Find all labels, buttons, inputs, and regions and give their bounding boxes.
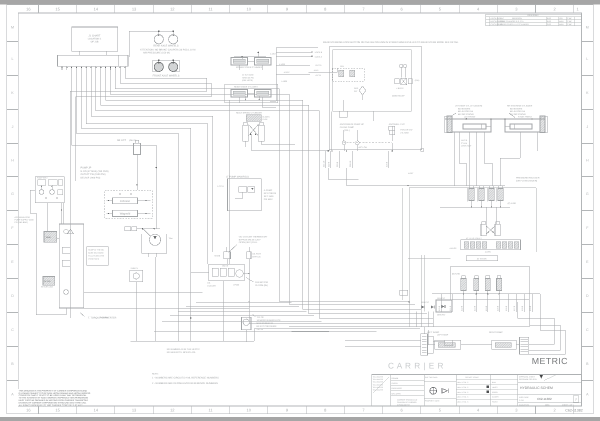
svg-text:BYPASS VALVE 120 F: BYPASS VALVE 120 F [239, 238, 262, 241]
svg-text:Tfan: Tfan [169, 237, 173, 240]
svg-text:BASE OIL 15W40: BASE OIL 15W40 [88, 252, 103, 255]
svg-text:C A R R | E R: C A R R | E R [388, 361, 444, 370]
svg-text:LIM ±.X TOL .5: LIM ±.X TOL .5 [457, 391, 468, 394]
dashed relay actuation line [343, 142, 392, 144]
svg-text:NO MAN AT/TIL NPN BY AGL: NO MAN AT/TIL NPN BY AGL [167, 351, 197, 354]
svg-text:J: J [586, 125, 588, 129]
svg-text:OIL FLTR: OIL FLTR [252, 253, 261, 256]
svg-text:R HAY FRONT: R HAY FRONT [518, 116, 533, 119]
small cylinder pair with X cross [481, 224, 486, 235]
small valve GA20 [224, 252, 231, 259]
svg-text:D 750: D 750 [519, 399, 524, 402]
svg-text:REAR STEERING LOCK BUTTON ON T: REAR STEERING LOCK BUTTON ON THE RH COLU… [323, 41, 459, 44]
right cylinder [258, 125, 264, 141]
svg-text:LIM ±.X TOL .5: LIM ±.X TOL .5 [457, 401, 468, 404]
svg-text:308-18: 308-18 [349, 160, 352, 167]
cylinder drop wires [453, 132, 455, 186]
svg-text:FAN MOTOR: FAN MOTOR [255, 281, 268, 284]
svg-text:2 - NUMBERS ARE DECIMAL/HYD RE: 2 - NUMBERS ARE DECIMAL/HYD REFERENCE NU… [152, 382, 218, 385]
svg-text:Wagnold: Wagnold [120, 213, 131, 216]
svg-text:GA20: GA20 [215, 255, 221, 258]
svg-text:OF J1B: OF J1B [91, 41, 99, 44]
svg-text:SPEED: SPEED [492, 391, 499, 394]
svg-text:13: 13 [132, 6, 137, 11]
terminal box bottom of big box left edge [400, 290, 408, 295]
filled revision triangle [540, 375, 544, 379]
svg-text:GAS: GAS [354, 87, 359, 90]
svg-text:AWN: AWN [559, 23, 564, 26]
svg-text:G: G [11, 192, 14, 196]
svg-text:(SEE NOTE): (SEE NOTE) [242, 79, 253, 82]
svg-text:REVISIONS: REVISIONS [528, 14, 540, 17]
svg-text:M: M [586, 25, 589, 29]
svg-text:TOL UNLESS: TOL UNLESS [373, 389, 384, 392]
svg-text:LH 2.5: LH 2.5 [461, 139, 468, 142]
wire pin12 S-route to left bus [70, 70, 207, 318]
svg-text:SUM PL: SUM PL [131, 267, 139, 270]
verticals from lock box bottom to relay bus [331, 111, 333, 151]
svg-text:BAM: BAM [492, 381, 496, 384]
grid row ticks and letters (left and right strips) [7, 41, 18, 43]
svg-text:PSI MAX: PSI MAX [264, 198, 273, 201]
svg-text:13: 13 [132, 408, 137, 413]
svg-text:1 - NUMBERS ARE CIRCUITS # ML: 1 - NUMBERS ARE CIRCUITS # ML REFERENCE … [152, 377, 219, 380]
svg-text:315-8: 315-8 [386, 161, 389, 167]
svg-text:OIL COOLER THERMOSTAT: OIL COOLER THERMOSTAT [239, 236, 268, 239]
svg-text:SCALE NTS: SCALE NTS [519, 403, 530, 406]
reducer 3 [489, 189, 494, 201]
svg-text:SOL PLT: SOL PLT [421, 301, 430, 304]
svg-text:A-PUMP: A-PUMP [264, 189, 273, 192]
wire pin9 SE-route [111, 70, 416, 304]
svg-text:AT 1 2 UP 3 DN 4 5: AT 1 2 UP 3 DN 4 5 [466, 237, 482, 240]
diode symbols mid-bottom [421, 305, 424, 308]
right-bottom nested corners [518, 302, 554, 344]
svg-text:TOL UNLESS: TOL UNLESS [373, 378, 384, 381]
svg-text:A ECN 04385-P: A ECN 04385-P [491, 17, 505, 20]
top gray bar [0, 0, 600, 5]
top bracket wire over power steer pair [234, 56, 266, 58]
svg-text:C.WF: C.WF [567, 17, 573, 20]
bottle 4 [497, 279, 502, 291]
svg-text:15: 15 [55, 6, 60, 11]
svg-text:FULL FLOW LTRS: FULL FLOW LTRS [88, 255, 104, 258]
terminal boxes feeding fan motor [125, 227, 131, 231]
svg-text:AT SLT BASE: AT SLT BASE [242, 74, 254, 77]
left cylinder [243, 125, 249, 141]
svg-text:416-8: 416-8 [505, 305, 508, 311]
svg-text:RIGHT RAMP: RIGHT RAMP [489, 331, 503, 334]
svg-text:MFG APPD: MFG APPD [392, 392, 402, 395]
svg-text:RETURN LINE: RETURN LINE [41, 286, 54, 289]
bus to connector vertical [423, 327, 425, 334]
svg-text:C62-11382: C62-11382 [565, 409, 583, 413]
left vertical bus wires [35, 213, 37, 315]
note text block (mid) [87, 247, 109, 266]
svg-text:FILTER: FILTER [44, 280, 51, 283]
svg-text:SOL PLT: SOL PLT [437, 297, 446, 300]
svg-text:SOME CHANGES E.S. CYL: SOME CHANGES E.S. CYL [500, 20, 524, 23]
svg-text:16: 16 [26, 408, 31, 413]
svg-text:419-8: 419-8 [529, 305, 532, 311]
manifold internal symbols [64, 229, 68, 233]
notes disclaimer dense text block [18, 389, 83, 406]
bottle 1 [461, 279, 466, 291]
svg-text:REAR STEER CYL ASSY: REAR STEER CYL ASSY [234, 86, 258, 89]
svg-text:302-8: 302-8 [328, 161, 331, 167]
svg-text:TOL UNLESS: TOL UNLESS [373, 376, 384, 379]
svg-text:LP500: LP500 [233, 284, 240, 287]
vertical connector right of ramps [520, 337, 529, 354]
wire label drops below bus [325, 151, 327, 168]
svg-text:A.DRN: A.DRN [485, 250, 492, 253]
svg-text:12: 12 [170, 408, 175, 413]
title block outline [372, 375, 582, 407]
stacked control boxes (dashed enclosure) [105, 190, 152, 219]
svg-text:DRAWN: DRAWN [392, 377, 399, 380]
wire pin4 to valve cluster [86, 70, 207, 264]
enclosure box around fan circle [142, 234, 167, 253]
black markers in tolerance rows [487, 386, 490, 389]
svg-text:C: C [11, 328, 14, 332]
svg-text:COOLER: COOLER [207, 285, 216, 288]
svg-text:BYPS 25: BYPS 25 [252, 255, 261, 258]
inner box steer lock circuit [333, 50, 412, 112]
svg-text:10: 10 [247, 6, 252, 11]
svg-text:J: J [12, 125, 14, 129]
svg-text:PROPERTY NOTE: PROPERTY NOTE [425, 400, 440, 403]
wires from J1 box to connector [79, 51, 81, 55]
flat box below cluster [466, 256, 498, 261]
svg-text:BD 45 ROD DIA: BD 45 ROD DIA [510, 110, 526, 113]
svg-text:ANTIFREEZE PUMP UP: ANTIFREEZE PUMP UP [340, 123, 365, 126]
circle-cross logo [430, 387, 437, 394]
mid column rows [491, 379, 518, 381]
sump line strainer box [130, 270, 143, 281]
svg-text:SYRACUSE NY: SYRACUSE NY [397, 404, 411, 407]
svg-text:DELIV.R ( 960 PSI): DELIV.R ( 960 PSI) [81, 176, 101, 179]
svg-text:HYDRAULIC SCHEM: HYDRAULIC SCHEM [520, 386, 553, 390]
svg-text:+ BUS F: + BUS F [396, 87, 404, 90]
svg-text:412-8: 412-8 [461, 305, 464, 311]
svg-text:(TANK MAX): (TANK MAX) [88, 258, 99, 261]
svg-text:G: G [586, 192, 589, 196]
filter box on manifold [43, 277, 55, 286]
svg-text:303-8: 303-8 [336, 161, 339, 167]
wires to ramp connector [345, 339, 421, 341]
svg-text:AWN: AWN [559, 20, 564, 23]
svg-text:D: D [586, 294, 589, 298]
third-angle projection symbol [442, 389, 448, 394]
bottom long bus [130, 340, 254, 342]
lock wires [276, 51, 312, 53]
svg-text:TOL UNLESS: TOL UNLESS [373, 386, 384, 389]
svg-text:N.125 (47 MAX) (150 CM3): N.125 (47 MAX) (150 CM3) [81, 170, 109, 173]
svg-text:NOTE:: NOTE: [152, 373, 159, 376]
reducer 4 [498, 189, 503, 201]
big enclosure box right-bottom area [409, 188, 536, 327]
verticals from manifold area down to bus [135, 282, 137, 342]
tank box on manifold [44, 232, 57, 243]
connector pins [61, 66, 63, 70]
svg-text:2 A 7MM: 2 A 7MM [400, 132, 408, 135]
svg-text:REDRAWN PER ECN: REDRAWN PER ECN [519, 378, 537, 381]
long left-to-right bottom trunks [196, 301, 292, 303]
wire label texts below bus [440, 294, 442, 312]
svg-text:OPEN (49 C) FULL: OPEN (49 C) FULL [239, 241, 259, 244]
svg-text:PSI (140 BAR): PSI (140 BAR) [15, 221, 28, 224]
bottom gray bar [0, 417, 600, 421]
svg-text:(YEL): (YEL) [344, 129, 350, 132]
svg-text:LEFT RAMP: LEFT RAMP [437, 334, 449, 337]
svg-text:Johnson: Johnson [120, 200, 131, 203]
svg-text:L: L [586, 57, 588, 61]
bracket wire front wheels [151, 60, 153, 71]
bus below reducers [435, 185, 505, 187]
svg-text:AE LOT: AE LOT [117, 139, 126, 142]
wires below mult speed cylinder [251, 134, 330, 150]
svg-text:6-92: 6-92 [547, 17, 551, 20]
svg-text:410-8: 410-8 [438, 305, 441, 311]
RH steer cylinder assembly [505, 119, 540, 132]
sol plt relay box [436, 300, 452, 312]
svg-text:10 MICRON ABSOLUTE: 10 MICRON ABSOLUTE [257, 319, 282, 322]
grid column ticks and numbers (top and bottom strips) [38, 5, 40, 13]
wire pin6 SE-route [96, 70, 433, 318]
svg-text:A RET: A RET [408, 172, 414, 175]
svg-text:LIM ±.X TOL .5: LIM ±.X TOL .5 [457, 396, 468, 399]
svg-text:METRIC: METRIC [532, 356, 568, 366]
svg-text:(B) N RD: (B) N RD [452, 273, 461, 276]
svg-text:A 1620: A 1620 [281, 80, 287, 83]
svg-text:CHECK: CHECK [392, 382, 399, 385]
svg-text:FON DR VW: FON DR VW [400, 129, 412, 132]
fuse clip row [395, 79, 400, 84]
ramp connecting wires [428, 344, 435, 346]
small box below diamond [339, 111, 347, 117]
reducer 2 [479, 189, 484, 201]
svg-text:FRONT AXLE WHEELS: FRONT AXLE WHEELS [153, 75, 180, 78]
svg-text:B3 EXT PRESSURE: B3 EXT PRESSURE [257, 325, 278, 328]
front axle wheel circle R (dark) [169, 62, 178, 71]
svg-text:PRESSURE REDUCER: PRESSURE REDUCER [516, 177, 540, 180]
svg-text:SUMP AT THE OIL: SUMP AT THE OIL [88, 249, 104, 252]
svg-text:T.FLTR: T.FLTR [257, 316, 264, 319]
svg-text:SIZE CAGE: SIZE CAGE [519, 396, 529, 399]
svg-text:16: 16 [26, 6, 31, 11]
drops from diode area to low bus [416, 312, 418, 327]
svg-text:DO NOT SCALE: DO NOT SCALE [465, 376, 479, 379]
J1 chart box [72, 27, 118, 51]
svg-text:MAIN RELIEF: MAIN RELIEF [392, 95, 405, 98]
svg-text:FUSE: FUSE [263, 118, 269, 121]
solenoid pair box (dashed) [332, 68, 364, 82]
svg-text:LIMITS: LIMITS [492, 386, 498, 389]
svg-text:REAR AXLE WHEELS: REAR AXLE WHEELS [153, 45, 178, 48]
svg-text:15: 15 [55, 408, 60, 413]
T filter box with circle [242, 317, 252, 329]
svg-text:A-BYPS: A-BYPS [449, 247, 457, 250]
svg-text:PUMP SPLY: PUMP SPLY [37, 177, 48, 180]
svg-text:A 1817: A 1817 [270, 53, 276, 56]
wide valve cluster [461, 240, 521, 250]
svg-text:PUMP SUPPLY 2000: PUMP SUPPLY 2000 [15, 219, 35, 222]
svg-text:25 GPM (95): 25 GPM (95) [255, 284, 268, 287]
svg-text:9-92: 9-92 [547, 20, 551, 23]
svg-text:414-8: 414-8 [485, 305, 488, 311]
reducer 1 [469, 189, 474, 201]
svg-text:BD 80 BORE: BD 80 BORE [458, 107, 471, 110]
svg-text:CYL B: CYL B [461, 142, 468, 145]
front axle wheel circle L (dark) [154, 62, 163, 71]
svg-text:ADDED CHECK V. AT CYLINDER: ADDED CHECK V. AT CYLINDER [500, 23, 529, 26]
wire pin1 down to fan motor [72, 70, 157, 229]
wires routed from mid to right [459, 163, 466, 186]
svg-text:DIAMTR: DIAMTR [492, 396, 499, 399]
gas plt diamond [359, 86, 366, 95]
fan circle bottom legs [147, 253, 149, 256]
hatched block [246, 115, 261, 122]
revision table top-right [486, 14, 582, 25]
svg-text:NO NUMBER AS IN THE HEPTIC: NO NUMBER AS IN THE HEPTIC [167, 348, 201, 351]
svg-text:LOCATION 1: LOCATION 1 [88, 38, 102, 41]
box around rear steer cyl assy [225, 84, 278, 103]
svg-text:TANK: TANK [46, 236, 52, 239]
svg-text:LOCK A: LOCK A [315, 56, 323, 59]
svg-text:418-8: 418-8 [521, 305, 524, 311]
power steer cylinder pair top [231, 58, 248, 66]
svg-text:PUMP JP: PUMP JP [81, 167, 92, 170]
svg-text:C: C [586, 328, 589, 332]
contact bars with square caps [400, 65, 403, 68]
svg-text:LH STEER CYL (CYLINDER): LH STEER CYL (CYLINDER) [455, 105, 482, 108]
svg-text:25 PSI: 25 PSI [257, 328, 264, 331]
svg-text:417-8: 417-8 [513, 305, 516, 311]
svg-text:LIM ±.X TOL .5: LIM ±.X TOL .5 [457, 381, 468, 384]
svg-text:A 1817: A 1817 [284, 71, 290, 74]
svg-text:LOT A: LOT A [218, 185, 225, 188]
triangle inside fan circle [153, 236, 157, 239]
wire pin5 to GA20 valve [91, 70, 212, 252]
svg-text:413-8: 413-8 [474, 305, 477, 311]
svg-text:ALL RIGHTS RESERVED (C) 1992 C: ALL RIGHTS RESERVED (C) 1992 CARRIER COR… [19, 404, 83, 407]
svg-text:A.B 5: A.B 5 [314, 69, 319, 72]
svg-text:OUT 5: OUT 5 [316, 64, 323, 67]
lower horizontals from left to right components [249, 323, 433, 325]
svg-text:LIM ±.X TOL .5: LIM ±.X TOL .5 [457, 386, 468, 389]
fan motor circle [149, 234, 160, 245]
svg-text:drain-line: drain-line [100, 316, 109, 319]
L wires below relay bus [328, 168, 358, 179]
rear axle wheel circle L [154, 35, 163, 44]
vertical hatched connector bottom center [421, 334, 428, 355]
crossing horizontals left-bottom [84, 291, 203, 293]
bottle 2 [474, 279, 479, 291]
wires joining pump area [61, 223, 63, 225]
wire pin3 to bottom bus [81, 70, 190, 341]
svg-text:SAE THIS DWG: SAE THIS DWG [425, 376, 438, 379]
bottle 3 [485, 279, 490, 291]
svg-text:14: 14 [94, 408, 99, 413]
wire to rear wheels [159, 31, 173, 35]
top wire across cylinders [445, 118, 545, 120]
svg-text:BD 280 STROKE: BD 280 STROKE [458, 113, 475, 116]
wire pin7 SE-route [101, 70, 427, 313]
svg-text:SHEET 1 OF 1: SHEET 1 OF 1 [562, 403, 574, 406]
svg-text:DWG: DWG [545, 403, 550, 406]
svg-text:LAY FRONT: LAY FRONT [464, 116, 476, 119]
drawn/check rows cell [391, 379, 425, 381]
valve row cluster [209, 264, 245, 280]
small valve oil filter bypass [247, 252, 251, 259]
svg-text:RH STEERING CYLINDER: RH STEERING CYLINDER [507, 105, 533, 108]
valve symbols inside manifold [239, 187, 247, 193]
svg-text:LOCK NUT: LOCK NUT [461, 145, 472, 148]
svg-text:FINISH: FINISH [492, 401, 498, 404]
svg-text:CLEAR PUMP: CLEAR PUMP [340, 126, 355, 129]
left pump cluster box [35, 177, 64, 203]
svg-text:(P) N RD: (P) N RD [508, 202, 517, 205]
wire pin11 S-route to pump cluster [76, 70, 212, 181]
wires at stacked boxes [107, 200, 113, 202]
bus below bottles [432, 293, 540, 295]
svg-text:D: D [11, 294, 14, 298]
svg-text:LOCK B: LOCK B [315, 51, 323, 54]
svg-text:ENGR APPD: ENGR APPD [392, 387, 403, 390]
svg-text:3-93: 3-93 [547, 23, 551, 26]
svg-text:MULT SPEED CYLINDER: MULT SPEED CYLINDER [236, 111, 262, 114]
bottle neck [135, 140, 139, 143]
svg-text:L: L [12, 57, 14, 61]
svg-text:POWER STEER CYLINDER: POWER STEER CYLINDER [236, 66, 263, 69]
svg-text:C62-11382: C62-11382 [537, 397, 552, 401]
svg-text:TOL UNLESS: TOL UNLESS [373, 381, 384, 384]
branch to solenoid box [309, 68, 337, 72]
wires out of pump cluster [41, 185, 43, 190]
mid verticals from rear-steer/mult-speed down to clusters [245, 96, 247, 100]
svg-text:H: H [11, 158, 14, 162]
svg-text:GRN PLT: GRN PLT [437, 314, 446, 317]
svg-text:AIR PRESSURE (150 M): AIR PRESSURE (150 M) [143, 52, 170, 55]
wire pin2 to bottom bus [77, 70, 179, 341]
svg-text:KEY PRESS: KEY PRESS [264, 192, 277, 195]
tall manifold rectangle [59, 224, 84, 308]
svg-text:VALVE: VALVE [222, 265, 229, 268]
svg-text:A.C B: A.C B [316, 74, 322, 77]
wire pin8 SE-route [106, 70, 421, 309]
svg-text:(10A): (10A) [415, 79, 420, 82]
svg-text:AT STEER: AT STEER [477, 257, 487, 260]
svg-text:10: 10 [247, 408, 252, 413]
outer box steer lock circuit [329, 47, 422, 150]
svg-text:M: M [11, 25, 14, 29]
svg-text:301-18: 301-18 [323, 160, 326, 167]
wires into tall manifold [57, 237, 60, 239]
svg-text:H: H [586, 158, 589, 162]
connector strip TB1 [58, 55, 129, 66]
X cross between cylinders [248, 124, 258, 135]
LH steer cylinder assembly [452, 119, 491, 132]
svg-text:12: 12 [170, 6, 175, 11]
svg-text:A 1620: A 1620 [279, 63, 285, 66]
wires around steer cyl pairs [238, 65, 240, 71]
svg-text:TIRES 25 PSI: TIRES 25 PSI [242, 76, 254, 79]
lower bottle group enclosure [451, 266, 529, 300]
svg-text:14: 14 [94, 6, 99, 11]
svg-text:OUTLET PSI (1500 PSI): OUTLET PSI (1500 PSI) [81, 173, 106, 176]
wire pin10 SE-route [115, 70, 409, 301]
svg-text:C.WF: C.WF [567, 20, 573, 23]
